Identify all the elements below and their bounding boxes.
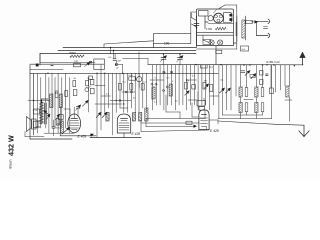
resistor box bank a [55,91,58,97]
wire stub y96 [210,95,219,97]
speaker LS frame [32,119,37,129]
resistor small y76 [250,75,256,78]
mains transformer sec hatch [242,20,245,38]
resistor box right edge [210,85,213,92]
tube V1 envelope [68,114,81,133]
svg-text:A=B1=U2: A=B1=U2 [266,60,280,64]
IF trafo2 secondary [255,103,258,113]
label 100 low [56,124,62,130]
wire right extra verticals [271,65,290,92]
node junction y73 x126 [104,73,123,74]
connector pad box [224,13,232,23]
resistor box mains [246,20,253,23]
junction circles mid [119,91,132,102]
rectifier tube pin 1 [214,15,217,18]
tuning coil bank hatch A [50,94,53,108]
IF trafo1 second col [245,88,248,112]
label 100 [164,41,170,45]
speaker magnet box [33,121,38,127]
wire top bus y53 [40,53,196,55]
tube V1 pins [70,107,78,116]
label fill f [167,78,171,80]
node junction y65 x267 [266,64,267,65]
mains transformer core [237,16,246,42]
antenna arrow A [300,52,305,65]
wire drop x116 [113,50,115,59]
wire speaker bottom lead [25,132,44,137]
wire bottom rail left [30,138,72,140]
svg-text:1M: 1M [204,81,207,83]
wire stub y80 b [187,79,197,81]
label box r [210,67,214,69]
resistor box g4 [91,88,95,94]
osc coil hatch C2 [145,108,148,121]
wire box bottom out [234,42,237,44]
wire V3 anode up [198,92,204,101]
wire bank feet [44,132,74,134]
wire power h1 [197,31,233,33]
wire plug top [257,20,269,22]
wire feed y41 [104,41,154,48]
fuse box F1 [199,11,209,17]
svg-text:432 W: 432 W [7,135,16,156]
label mid b [133,98,136,100]
ground arrow E [299,125,309,136]
svg-text:5000: 5000 [70,51,77,55]
wire IF mids [241,97,257,103]
node out trafo [41,101,42,102]
speaker LS cone [27,117,32,132]
resistor box v spk [56,118,59,125]
component near coil [59,115,63,120]
mains plug prong 2 [268,33,270,38]
rectifier tube pin 2 [219,15,222,18]
svg-text:100: 100 [164,41,170,45]
dial lamp 2 [218,40,223,45]
wire middle bundle verticals [97,52,147,138]
wire lamp link [203,35,209,42]
resistor box 0.1 h [200,65,207,68]
wire x60 down [60,107,62,136]
label tube V3 [210,129,219,133]
label tube V1 [78,134,87,138]
voltage select arrow [251,21,258,24]
wire right area verticals [219,65,236,119]
output transformer core [45,103,47,124]
wire bottom rail mid [60,135,96,137]
label switch row [33,110,39,112]
wire tube V2 bottom [123,133,125,138]
label fill c [192,76,196,78]
resistor box r2 [203,83,206,90]
caption 432 W [7,135,16,156]
label 100a [74,61,79,64]
resistor box g1 [86,80,89,86]
wire x196 vertical [196,16,198,48]
tube V3 envelope [199,110,209,130]
label fill a [154,102,158,104]
label fill b [175,101,178,103]
wire box drop x152 [153,44,155,48]
socket circles F [163,86,169,92]
bold arrow g [83,100,89,106]
node junction y73 x97 [96,73,97,74]
wire y23.5 in box [208,23,234,25]
node junction y73 x48 [47,73,48,74]
resistor box under y49 [216,50,222,53]
tube V3 grid lines [201,118,208,124]
tube V1 anode [71,114,78,119]
wire lowmid slope [141,130,209,132]
osc coil hatch E [152,87,155,99]
svg-text:E 409: E 409 [78,134,87,138]
wire box top feed [218,5,236,16]
wire bottom rail right2 [276,123,304,126]
wire drop x110 [110,47,111,54]
switch S1 mains [192,13,197,27]
junction dots mid [116,100,125,105]
small arrow near label [89,134,94,136]
mains plug prong 1 [268,19,270,24]
node junction y65 x37 [36,64,37,65]
wire v1 top link [64,108,70,110]
tube V3 anode [202,114,207,116]
tuning coil bank hatch B [59,94,62,108]
label fill d [221,80,225,82]
svg-text:E 428: E 428 [210,129,219,133]
tube heater circle [208,16,213,21]
label mid a [106,94,110,96]
wire mid links [95,86,135,97]
wire bottom rail slope [218,121,276,124]
trimmer cap 2 [177,53,184,65]
wire top bus y50 [58,50,196,52]
dial lamp 1 [209,40,214,45]
wire y68.5 partial [30,69,63,71]
label right a [186,81,190,83]
wire right bundle verticals [153,65,214,110]
resistor box 100a [74,63,81,66]
IF core arrow 1 [220,88,225,93]
junction small box [36,64,38,66]
label 40 [74,78,77,80]
resistor 5000 zigzag [70,55,84,57]
pot circle g [85,86,91,92]
tube V3 cathode [202,127,207,129]
bold arrow if1 [245,71,250,76]
wire y118 right [218,118,272,120]
label mid c [123,82,127,84]
svg-text:100: 100 [74,61,79,64]
label 0.5 [108,57,112,59]
osc coil hatch C [139,113,142,122]
rail junction dots right [243,64,274,65]
svg-text:2nF: 2nF [117,61,121,63]
label 3nF [117,61,121,63]
resistor box 100 top [154,34,191,44]
bold arrow mid2 [204,84,208,88]
resistor box y48 right [241,46,249,51]
mains transformer primary coil [236,22,237,36]
wire left frame vertical x30 [29,65,31,139]
label 0.06 [129,75,134,77]
wire stub y80 a [150,79,164,81]
power unit box outline [197,9,234,46]
IF trafo1 primary [239,87,242,97]
node rail dot x294 [294,65,295,66]
resistor box v mid3 [141,84,144,91]
wire V3 bottom [203,129,205,132]
wire IF feeds [241,65,263,88]
wire left frame vertical x33 [33,73,35,135]
bold arrow osc2 [102,112,107,117]
junction circles rail y73 [163,71,173,73]
wire y115 right [222,110,262,115]
svg-text:E 428: E 428 [132,132,141,136]
bold arrow if2 [251,74,256,79]
wire power inner v2 [214,9,218,13]
component small box left mid [89,76,93,80]
wire detector bottom [285,97,292,121]
svg-text:1 3 4: 1 3 4 [33,110,39,112]
resistor box bank c [73,81,76,87]
wire V3 left [192,103,199,117]
label right c [172,81,174,83]
label 50 bank [55,92,58,95]
resistor zigzag 1700 [216,27,227,30]
wire y49 under box [197,43,237,49]
wire out trafo top [42,99,49,102]
wire L mid right [166,95,180,119]
resistor box r1b [192,85,196,90]
tuning coil hatch left [60,121,63,133]
node junction y65 x221 [220,64,221,65]
resistor box g3 [90,79,94,85]
wire left drop x40 [39,54,41,66]
IF trafo2 second col [261,88,264,112]
capacitor right2 [266,74,269,75]
capacitor y71 right [241,71,246,73]
capacitor C a [89,62,92,63]
osc coil hatch D [169,84,172,96]
junction dots right [163,64,197,81]
label 1700 [206,27,212,31]
capacitor on x196 [194,24,199,29]
svg-text:Braun: Braun [9,159,13,168]
wire bottom rail mid2 [90,137,141,139]
mains cap marks [264,27,268,29]
tube V1 grid [70,121,80,129]
capacitor plates x116 [113,59,116,61]
wire x216 from box [215,46,217,65]
wire power inner v1 [205,16,208,29]
osc coil hatch B [132,113,135,122]
resistor box right x272 [269,88,273,94]
label fill e [155,78,157,80]
wire right outer vertical [271,65,273,119]
wire lowmid low [146,119,197,128]
switch contact arrows [46,114,60,120]
lamp holder rect [203,39,211,44]
hum coil box [34,109,40,114]
resistor box above V3 b [199,107,205,111]
resistor box right x261b [260,80,264,85]
bold arrow to V1 [62,128,70,135]
tube V1 cathode [72,130,78,132]
tube V2 envelope [117,114,130,133]
IF trafo1 secondary [239,103,242,113]
wire plug bottom [257,21,269,35]
grid cap tube2 [120,107,128,109]
resistor box right x261a [260,71,264,76]
component lowmid [186,121,192,124]
trimmer cap g [76,105,81,111]
rectifier tube pin 3 [217,19,220,22]
caption brand [9,159,13,168]
wire y104 mid [95,103,122,105]
node junction y65 x115 [115,64,116,65]
wire y100 stub [188,99,197,101]
rectifier tube circle [214,13,224,23]
resistor box bank c2 [73,90,77,96]
wire lowmid mid [141,121,199,132]
label 5000 [70,51,77,55]
cap left pair [52,120,55,136]
connector pads dark [230,14,232,21]
label 30 [87,78,90,80]
bold arrow mid [185,91,190,96]
wire top bus y47 [63,47,196,49]
wire y61 partial [40,54,95,63]
capacitor C b [51,64,54,65]
box can component [94,59,105,70]
resistor box v mid2 [130,84,133,91]
output transformer primary zigzag [40,102,43,124]
wire speaker top [36,120,40,122]
wire tuner coil bank verticals [38,73,70,133]
label tube V2 [132,132,141,136]
wire main top rail AB+ y65 right [148,64,303,66]
IF core arrow 2 [226,88,231,93]
tube V2 anode [121,118,128,120]
socket circles E [151,83,157,85]
wire speaker bot [36,126,40,128]
resistor box r1 [185,83,188,90]
wire y98 left [28,100,50,101]
IF trafo2 primary [255,87,258,97]
wire lowmid top [146,110,205,119]
detector coil hatch [286,86,289,97]
resistor box h mid [129,77,136,80]
wire y100 mid [110,100,131,102]
resistor box above V3 [197,101,205,107]
resistor box v mid1 [119,84,122,91]
bold arrow osc1 [96,112,101,117]
osc coil hatch A [106,113,109,122]
resistor box bank b [65,91,68,97]
wire x191 vertical [191,12,197,34]
wire IF bottoms [241,112,263,119]
grid resistor chain [88,78,90,112]
label right b [204,81,207,83]
label AB+U2 [266,60,280,64]
electrolytic cap small circle [137,73,142,88]
tube V2 grid lines [119,121,129,130]
pot wiper circle [115,60,122,73]
trimmer cap 1 [160,53,167,65]
wire y118 out [209,120,218,124]
svg-text:1700: 1700 [206,27,212,31]
wire rail y73 [30,72,218,74]
transformer tap arrow [44,111,49,115]
wire y58 link [123,59,148,65]
label mid d [144,82,148,84]
wire power h2 [197,34,233,36]
wire main top rail AB+ y65 left [30,63,104,65]
pot arrow a [85,63,91,67]
